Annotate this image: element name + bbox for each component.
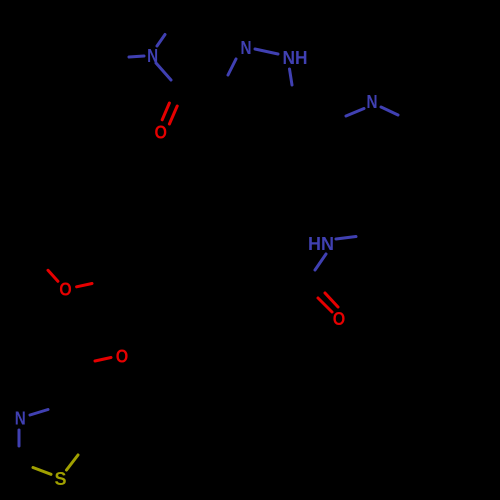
wire quinoline N right half-bond — [381, 107, 398, 115]
wire methoxy O up-left half-bond — [48, 270, 58, 281]
svg-text:S: S — [54, 469, 66, 489]
wire N-CH3 up half-bond — [157, 35, 165, 47]
wire S-C2 half-bond — [33, 468, 51, 475]
wire N1-C5 half-bond — [228, 59, 236, 75]
wire ether O left half-bond — [95, 358, 111, 362]
svg-text:N: N — [15, 408, 26, 428]
svg-text:HN: HN — [308, 234, 334, 254]
svg-text:O: O — [154, 122, 167, 142]
wire C=O1 double bond line 2 — [169, 106, 177, 124]
wire C=O2 double bond line 1 — [325, 293, 338, 307]
wire N-C(=O) half-bond — [156, 63, 171, 80]
wire methoxy O right half-bond — [77, 284, 92, 287]
wire HN right half-bond — [336, 237, 356, 240]
wire C=O2 double bond line 2 — [318, 298, 332, 312]
wire quinoline N left half-bond — [346, 109, 364, 117]
svg-text:O: O — [116, 347, 129, 367]
wire S-C5 half-bond — [67, 455, 79, 470]
svg-text:O: O — [59, 280, 72, 300]
svg-text:N: N — [241, 38, 252, 58]
wire HN-C(=O) half-bond — [315, 254, 326, 270]
wire thiazole N down half-bond — [18, 430, 21, 446]
wire N2-C3 half-bond — [290, 69, 293, 85]
wire C=O1 double bond line 1 — [162, 103, 169, 120]
wire N-CH3 left half-bond — [129, 56, 144, 57]
wire thiazole N up-right half-bond — [30, 410, 48, 416]
svg-text:NH: NH — [283, 48, 308, 68]
svg-text:N: N — [367, 92, 378, 112]
wire N1-N2 bond — [255, 49, 278, 54]
svg-text:O: O — [333, 309, 346, 329]
